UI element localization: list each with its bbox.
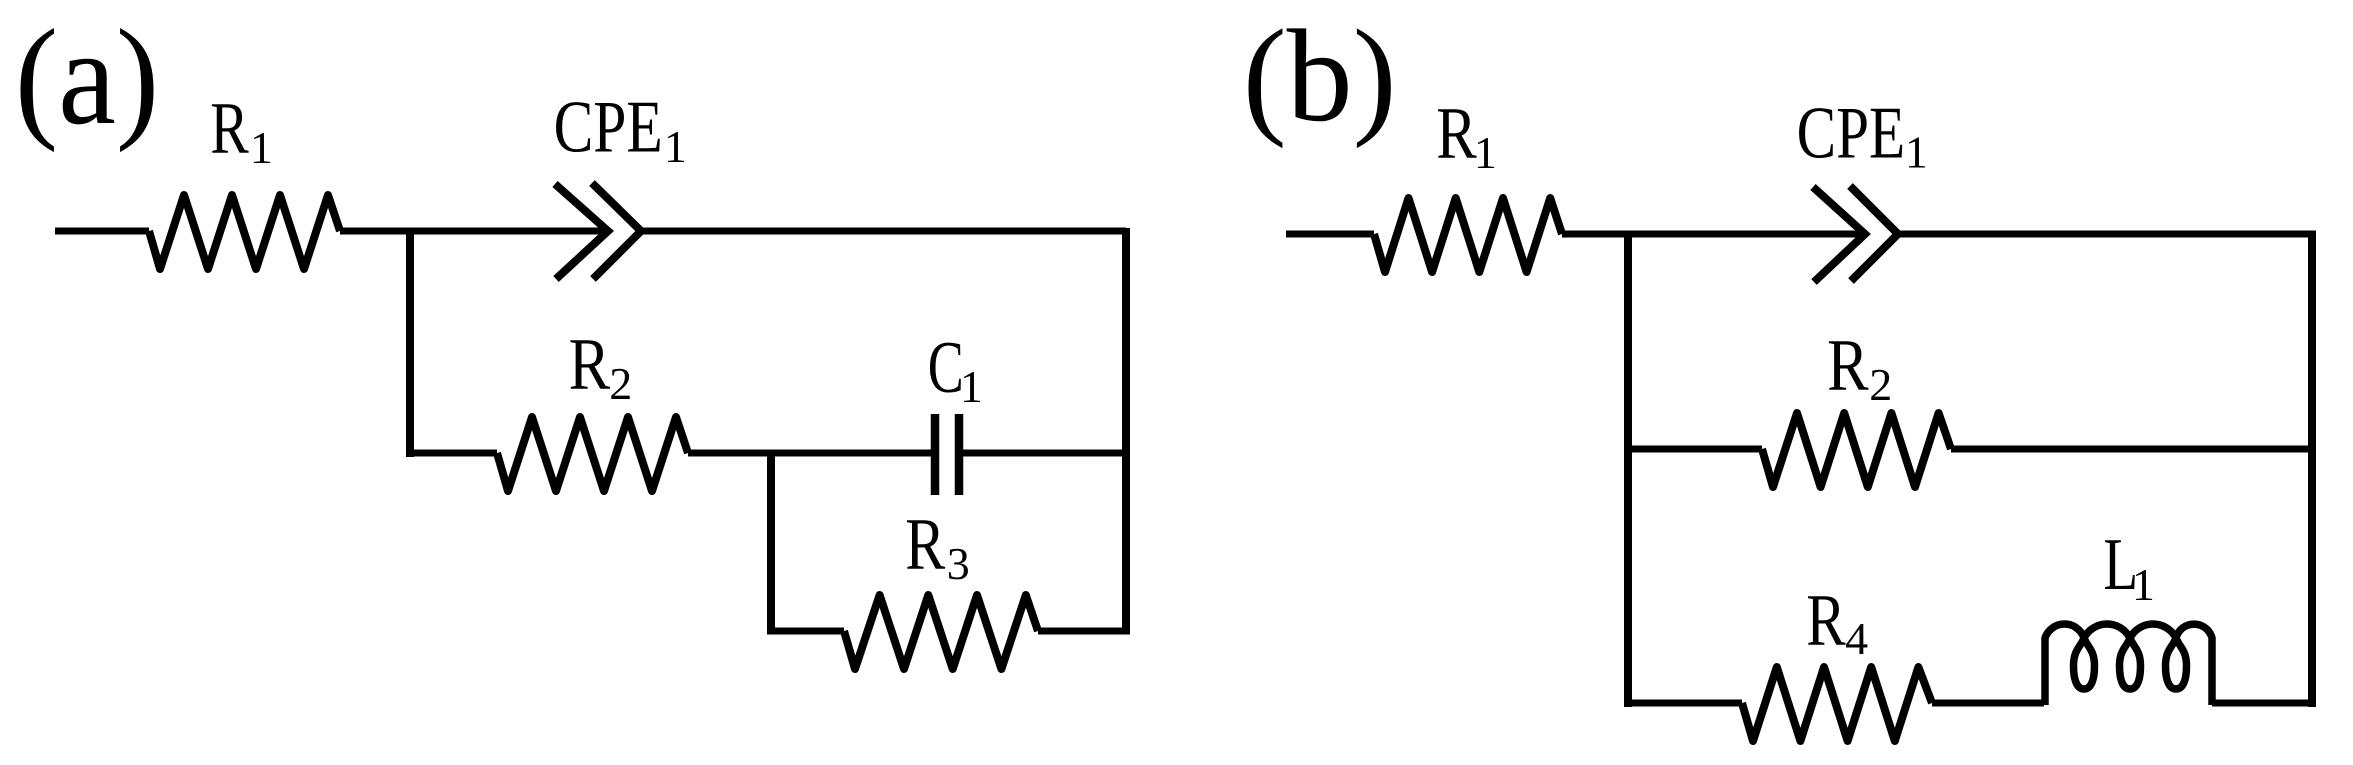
svg-text:3: 3: [947, 538, 970, 589]
wire: CPE1 to right rail (panel b): [1899, 231, 2312, 238]
label C1 (panel a): [928, 327, 983, 412]
wire: junction node B vertical drop (panel a): [767, 450, 775, 635]
svg-text:4: 4: [1845, 613, 1868, 664]
resistor R4 (panel b): [1742, 667, 1932, 741]
wire: C1 to right rail (panel a): [963, 450, 1126, 457]
wire: right rail of panel (b): [2308, 231, 2316, 708]
wire: bottom branch lead (panel b): [1628, 700, 1742, 707]
wire: R2 branch lead (panel b): [1628, 446, 1762, 453]
capacitor C1 (panel a): [935, 414, 959, 495]
svg-text:R: R: [905, 503, 945, 585]
svg-text:1: 1: [664, 121, 687, 172]
svg-text:2: 2: [609, 358, 632, 409]
svg-text:R: R: [210, 88, 249, 169]
resistor R1 (panel a): [149, 195, 340, 269]
label R2 (panel b): [1827, 324, 1892, 410]
wire: node C to CPE1 (panel b top branch): [1562, 231, 1863, 238]
svg-text:CPE: CPE: [1797, 92, 1906, 174]
resistor R1 (panel b): [1374, 198, 1562, 272]
wire: node A to CPE1 (panel a top branch): [340, 228, 606, 235]
label CPE1 (panel a): [554, 85, 687, 172]
svg-text:C: C: [928, 327, 964, 409]
label R1 (panel a): [210, 88, 273, 173]
svg-text:(a): (a): [15, 1, 159, 153]
wire: junction node A vertical drop (panel a): [406, 228, 414, 457]
constant phase element CPE1 (panel a): [555, 183, 641, 279]
svg-text:1: 1: [1474, 127, 1497, 178]
wire: left rail vertical of panel (b): [1624, 231, 1632, 708]
label CPE1 (panel b): [1797, 92, 1928, 177]
label R4 (panel b): [1806, 580, 1868, 664]
inductor L1 (panel b): [2045, 624, 2212, 705]
wire: right rail of panel (a): [1122, 228, 1130, 635]
wire: R2 branch lead (panel a): [410, 450, 497, 457]
svg-text:R: R: [1436, 92, 1477, 174]
wire: R2 to right rail (panel b): [1951, 446, 2312, 453]
svg-text:(b): (b): [1243, 2, 1397, 149]
svg-text:1: 1: [1905, 127, 1928, 178]
label R1 (panel b): [1436, 92, 1497, 178]
svg-text:CPE: CPE: [554, 85, 663, 168]
svg-text:R: R: [1806, 580, 1846, 662]
wire: CPE1 to right rail (panel a): [642, 228, 1126, 235]
label R2 (panel a): [569, 323, 633, 409]
svg-text:2: 2: [1869, 359, 1892, 410]
wire: R2 to capacitor C1 (panel a): [688, 450, 931, 457]
resistor R2 (panel b): [1762, 413, 1951, 487]
wire: input lead of panel (b): [1286, 231, 1374, 238]
wire: R3 branch lead (panel a): [771, 628, 844, 635]
label R3 (panel a): [905, 503, 969, 589]
resistor R2 (panel a): [497, 417, 688, 491]
panel label (b): [1243, 2, 1397, 149]
wire: R3 to right rail (panel a): [1038, 628, 1126, 635]
wire: input lead of panel (a): [55, 228, 149, 235]
svg-text:1: 1: [2132, 559, 2155, 610]
svg-text:1: 1: [960, 361, 983, 412]
svg-text:1: 1: [250, 122, 273, 173]
wire: L1 to right rail (panel b): [2212, 700, 2312, 707]
panel label (a): [15, 1, 159, 153]
label L1 (panel b): [2103, 524, 2155, 610]
constant phase element CPE1 (panel b): [1813, 186, 1898, 282]
svg-text:R: R: [569, 323, 611, 405]
svg-text:R: R: [1827, 324, 1869, 406]
resistor R3 (panel a): [844, 595, 1038, 669]
wire: R4 to inductor L1 (panel b): [1932, 700, 2044, 707]
